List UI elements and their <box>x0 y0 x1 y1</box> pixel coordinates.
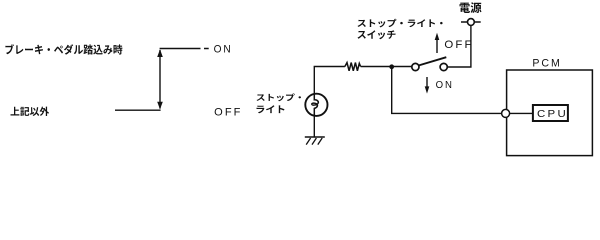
wire terminal to CPU <box>510 112 533 114</box>
power source terminal (電源) <box>461 19 481 26</box>
label: stop light switch (ストップ・ライト・スイッチ) <box>358 19 443 39</box>
junction node <box>389 64 394 69</box>
svg-text:ON: ON <box>214 43 233 55</box>
resistor R <box>345 63 361 71</box>
wire OFF-level line <box>115 109 161 111</box>
svg-text:OFF: OFF <box>444 39 473 51</box>
wire junction down and right to PCM <box>392 67 502 114</box>
label: stop light (ストップ・ライト) <box>257 93 302 113</box>
wire lamp bottom to ground <box>313 116 315 137</box>
switch OFF direction arrow <box>435 33 440 53</box>
ground (chassis) <box>305 137 325 145</box>
lamp L1 (stop light bulb) <box>305 94 327 116</box>
wire ON-level line <box>160 48 209 50</box>
wire resistor to switch <box>361 66 412 68</box>
svg-text:PCM: PCM <box>532 58 561 70</box>
stop light switch SW <box>412 57 448 70</box>
PCM box <box>507 70 593 156</box>
svg-text:CPU: CPU <box>537 109 568 120</box>
label: power source (電源) <box>460 2 482 13</box>
svg-text:ON: ON <box>436 80 454 91</box>
PCM input terminal <box>502 109 510 117</box>
label: brake pedal pressed (ブレーキ・ペダル踏込み時) <box>5 44 122 54</box>
wire lamp top to corner <box>314 67 345 94</box>
label: other than above (上記以外) <box>11 107 50 116</box>
wire switch to power drop <box>447 25 471 67</box>
switch ON direction arrow <box>425 77 430 94</box>
node transition arrow (double-headed) <box>157 49 163 109</box>
svg-text:OFF: OFF <box>214 106 242 118</box>
CPU box <box>533 105 568 121</box>
